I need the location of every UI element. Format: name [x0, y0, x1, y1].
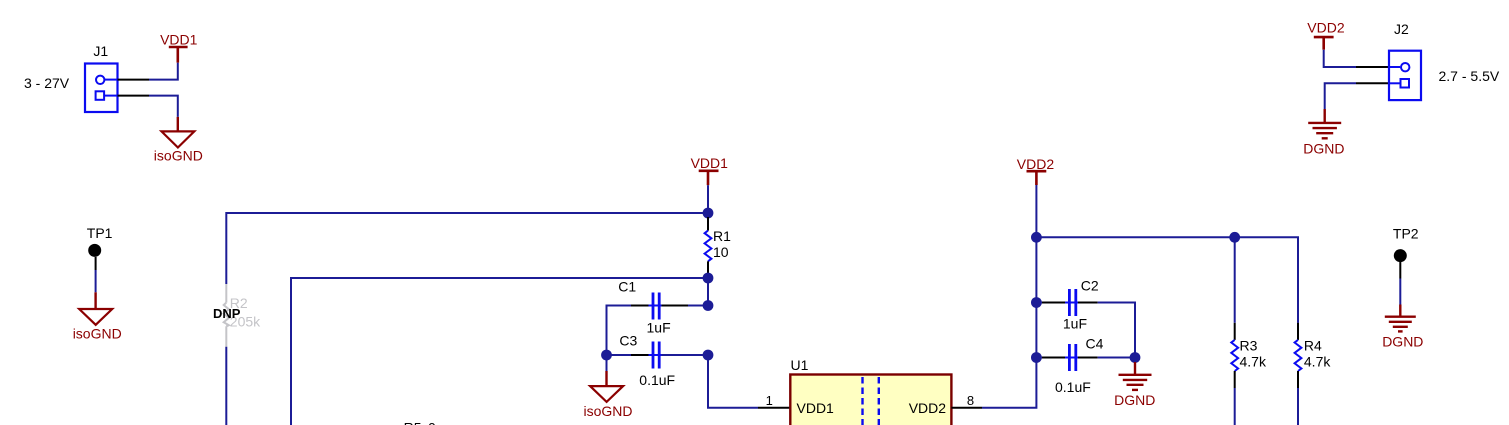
- junction node C4 left: [1031, 352, 1042, 363]
- ground DGND (C4): [1114, 362, 1155, 408]
- svg-text:8: 8: [967, 393, 974, 408]
- wire J1 pin2 to isoGND: [149, 96, 178, 117]
- svg-text:VDD2: VDD2: [1307, 20, 1345, 36]
- svg-text:DGND: DGND: [1114, 392, 1155, 408]
- wire net 2 horizontal (to R5 branch): [291, 278, 708, 425]
- svg-text:R4: R4: [1304, 338, 1322, 354]
- svg-text:VDD1: VDD1: [160, 32, 198, 48]
- capacitor C4: [1042, 335, 1104, 395]
- resistor R4: [1295, 323, 1332, 388]
- wire C4 right: [1098, 357, 1135, 359]
- wire C3 row to U1 pin1: [708, 355, 758, 408]
- svg-text:DGND: DGND: [1382, 334, 1423, 350]
- power symbol VDD2 (J2): [1307, 20, 1345, 50]
- test point TP2: [1393, 226, 1419, 279]
- resistor R2 (DNP, greyed): [224, 284, 261, 347]
- junction node C3 right: [703, 350, 714, 361]
- ground isoGND (TP1): [73, 292, 122, 341]
- wire R2 bottom to sheet edge: [225, 347, 227, 425]
- junction node VDD1/R1 top: [703, 208, 714, 219]
- resistor R1: [705, 217, 732, 274]
- ground isoGND (C3): [584, 360, 633, 419]
- svg-text:U1: U1: [791, 357, 809, 373]
- wire C4 left stub: [1036, 357, 1042, 359]
- svg-text:4.7k: 4.7k: [1304, 354, 1331, 370]
- wire R3 top: [1234, 237, 1236, 322]
- svg-text:VDD1: VDD1: [691, 155, 729, 171]
- svg-text:C1: C1: [618, 279, 636, 295]
- svg-text:VDD2: VDD2: [1017, 156, 1055, 172]
- wire C2 left stub: [1036, 302, 1042, 304]
- svg-text:1: 1: [766, 393, 773, 408]
- svg-text:1uF: 1uF: [647, 320, 671, 336]
- svg-text:10: 10: [713, 244, 729, 260]
- pin 1 stub J2 top: [1356, 66, 1389, 68]
- wire VDD2 vertical to C2: [1035, 237, 1037, 302]
- svg-text:J1: J1: [93, 43, 108, 59]
- wire VDD1 stem: [707, 185, 709, 213]
- svg-text:C4: C4: [1086, 335, 1104, 351]
- svg-text:TP2: TP2: [1393, 226, 1419, 242]
- label 3-27V: [24, 75, 70, 91]
- resistor R5 labels (cropped at bottom edge): [404, 420, 436, 425]
- connector J2: [1389, 21, 1421, 100]
- wire R3 bottom to sheet edge: [1234, 388, 1236, 425]
- svg-text:0: 0: [428, 420, 436, 425]
- svg-text:DNP: DNP: [213, 306, 241, 321]
- svg-text:isoGND: isoGND: [154, 148, 203, 164]
- label DNP: [213, 306, 241, 321]
- svg-text:0.1uF: 0.1uF: [1055, 379, 1091, 395]
- capacitor C3: [619, 333, 688, 389]
- wire VDD2 to J2 pin1: [1324, 50, 1356, 67]
- svg-text:2.7 - 5.5V: 2.7 - 5.5V: [1439, 68, 1500, 84]
- pin 1 stub J1 top: [118, 79, 150, 81]
- svg-text:VDD1: VDD1: [797, 400, 835, 416]
- resistor R3: [1231, 323, 1267, 388]
- svg-text:0.1uF: 0.1uF: [639, 372, 675, 388]
- junction node R3 tap: [1229, 232, 1240, 243]
- capacitor C1: [618, 279, 688, 336]
- svg-text:4.7k: 4.7k: [1240, 354, 1267, 370]
- svg-text:isoGND: isoGND: [73, 326, 122, 342]
- connector J1: [85, 43, 118, 112]
- capacitor C2: [1042, 278, 1099, 332]
- wire C1 right: [688, 305, 708, 307]
- wire R4 bottom to sheet edge: [1297, 388, 1299, 425]
- svg-text:R1: R1: [713, 228, 731, 244]
- wire R1 bottom to C1 row: [707, 278, 709, 306]
- junction node C1 right: [703, 300, 714, 311]
- junction node C2 left: [1031, 297, 1042, 308]
- wire net VDD1 horizontal (to R2 branch): [226, 213, 708, 284]
- wire TP1 to isoGND: [95, 270, 97, 292]
- wire C1 left / C3 left vertical: [607, 306, 632, 356]
- junction node VDD2 top: [1031, 232, 1042, 243]
- wire J1 pin1 to VDD1: [149, 63, 178, 80]
- wire C2 right / right vertical: [1098, 303, 1135, 358]
- svg-text:C3: C3: [619, 333, 637, 349]
- svg-text:R5: R5: [404, 420, 422, 425]
- svg-text:J2: J2: [1394, 21, 1409, 37]
- power symbol VDD2 (mid): [1017, 156, 1055, 185]
- svg-text:DGND: DGND: [1303, 141, 1344, 157]
- junction node R1 bottom: [703, 273, 714, 284]
- wire R4 top: [1297, 237, 1299, 322]
- ground isoGND (J1): [154, 117, 203, 164]
- svg-text:1uF: 1uF: [1063, 316, 1087, 332]
- power symbol VDD1 (mid): [691, 155, 729, 185]
- svg-text:VDD2: VDD2: [909, 400, 947, 416]
- wire J2 pin2 to DGND: [1325, 83, 1356, 109]
- svg-text:TP1: TP1: [87, 225, 113, 241]
- wire C3 right: [662, 354, 709, 356]
- ground DGND (J2): [1303, 109, 1344, 157]
- ground DGND (TP2): [1382, 305, 1423, 350]
- wire VDD2 stem: [1035, 185, 1037, 237]
- pin 2 stub J2 bottom: [1356, 82, 1389, 84]
- wire C2 to C4 (left vertical): [1035, 303, 1037, 358]
- pin 2 stub J1 bottom: [118, 95, 150, 97]
- op-amp U1 (isolator body): [790, 357, 951, 425]
- wire U1 pin8 to VDD2 branch: [982, 358, 1036, 408]
- test point TP1: [87, 225, 113, 270]
- svg-text:3 - 27V: 3 - 27V: [24, 75, 70, 91]
- pin 8 of U1: [951, 393, 982, 408]
- label 2.7-5.5V: [1439, 68, 1500, 84]
- wire VDD2 horizontal to R3/R4: [1036, 237, 1298, 322]
- svg-text:R3: R3: [1240, 338, 1258, 354]
- svg-text:isoGND: isoGND: [584, 403, 633, 419]
- junction node C4 right: [1130, 352, 1141, 363]
- wire TP2 to DGND: [1399, 279, 1401, 305]
- svg-text:C2: C2: [1081, 278, 1099, 294]
- junction node C3 left: [601, 350, 612, 361]
- power symbol VDD1 (J1): [160, 32, 198, 63]
- wire C3 left stub: [607, 354, 632, 356]
- pin 1 of U1: [758, 393, 790, 408]
